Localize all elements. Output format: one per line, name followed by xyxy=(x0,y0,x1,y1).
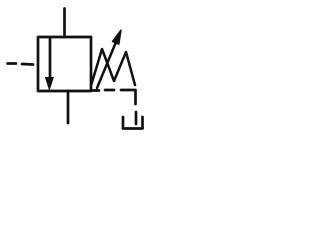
tank symbol xyxy=(123,117,143,129)
valve body square xyxy=(38,37,91,91)
drain line dash 3 with corner down xyxy=(121,90,136,104)
drain line dash 1 xyxy=(91,89,99,92)
drain line vertical dash xyxy=(135,112,138,124)
adjustment arrow shaft xyxy=(97,42,116,88)
drain line dash 2 xyxy=(105,89,114,92)
flow path arrow shaft xyxy=(49,38,52,79)
adjustable spring zigzag xyxy=(92,49,136,85)
left pilot line dash 1 xyxy=(8,62,17,65)
adjustment arrowhead xyxy=(112,30,121,44)
flow path arrowhead xyxy=(46,78,54,90)
left pilot line dash 2 xyxy=(22,63,33,66)
top pilot port line xyxy=(63,9,66,38)
bottom outlet port line xyxy=(67,91,70,123)
